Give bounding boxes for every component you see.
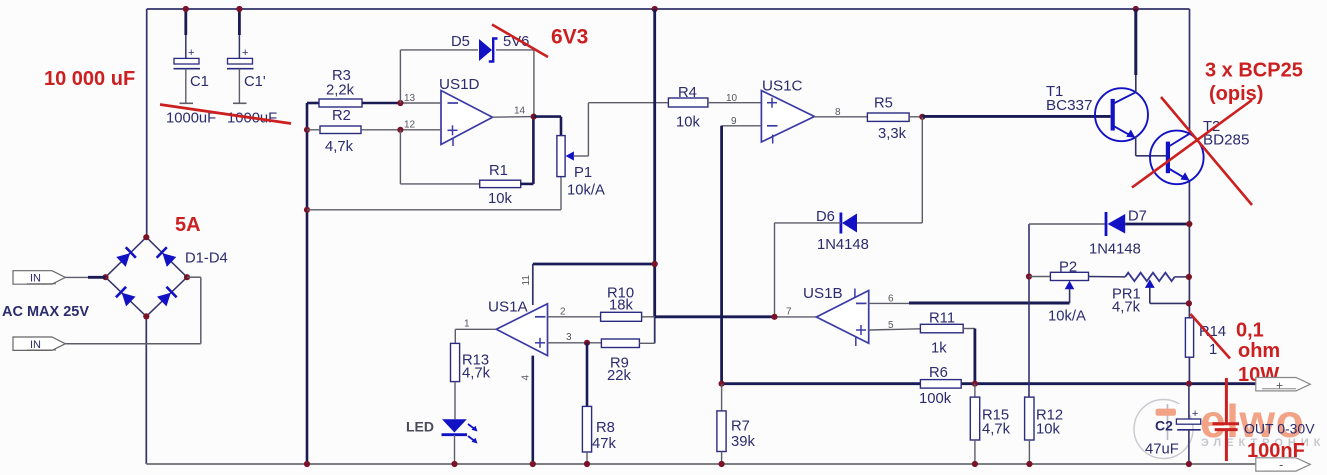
label LED <box>406 419 434 435</box>
label C1 <box>190 74 209 90</box>
label R8 <box>596 420 615 436</box>
svg-text:IN: IN <box>30 273 41 285</box>
label R3 value 2,2k <box>326 83 355 99</box>
svg-text:AC MAX 25V: AC MAX 25V <box>2 304 89 320</box>
wire R3 left stub <box>307 102 319 105</box>
red annotation (opis) <box>1209 83 1263 105</box>
wire R3 to pin13 <box>362 102 400 105</box>
pin number 2 <box>560 307 566 318</box>
svg-text:3,3k: 3,3k <box>878 126 907 142</box>
svg-text:4,7k: 4,7k <box>982 422 1011 438</box>
wire left column <box>306 103 309 464</box>
svg-text:10k: 10k <box>676 115 700 131</box>
label P2 <box>1059 260 1077 276</box>
resistor R13 <box>451 343 460 381</box>
svg-text:6: 6 <box>888 294 894 305</box>
label R10 value 18k <box>609 298 633 314</box>
label R5 value 3,3k <box>878 126 907 142</box>
wire D5 feedback loop <box>400 50 534 117</box>
svg-text:US1D: US1D <box>439 76 480 93</box>
zener diode D5 <box>479 39 498 62</box>
wire P2 to PR1 <box>1089 276 1126 278</box>
wire IN upper to bridge <box>65 276 105 278</box>
wire right frame to T2 collector <box>1189 9 1191 134</box>
svg-text:1k: 1k <box>931 341 947 357</box>
svg-text:7: 7 <box>786 307 792 318</box>
red annotation 5A <box>175 214 201 236</box>
junction left column ground <box>304 461 310 467</box>
svg-text:R5: R5 <box>874 96 893 112</box>
junction D7 frame <box>1186 221 1192 227</box>
wire T1 emitter to T2 base <box>1136 137 1167 156</box>
wire IN lower to bridge right vertex <box>65 277 201 344</box>
junction PR1 right frame <box>1186 274 1192 280</box>
junction bridge top vertex <box>143 234 149 240</box>
wire left frame lower <box>145 316 147 464</box>
svg-text:+: + <box>1192 408 1198 420</box>
label US1A <box>488 299 529 316</box>
red annotation ohm <box>1238 340 1280 362</box>
wire R2 to pin12 <box>361 129 400 131</box>
wire pin9 <box>722 125 762 127</box>
svg-text:10k/A: 10k/A <box>567 183 605 199</box>
label T2 type BD285 <box>1203 132 1249 149</box>
red strike through 1000uF labels <box>160 105 291 124</box>
svg-text:LED: LED <box>406 419 434 435</box>
junction bridge right vertex <box>184 274 190 280</box>
capacitor C1 <box>174 9 201 103</box>
svg-text:C1': C1' <box>244 74 266 90</box>
wire pin11 feed <box>533 264 655 305</box>
wire bottom ground rail <box>146 463 1256 465</box>
connector IN upper <box>13 271 65 285</box>
red cross over T2 line 2 <box>1132 100 1252 188</box>
svg-text:US1B: US1B <box>803 285 843 302</box>
junction R15 ground <box>972 461 978 467</box>
resistor R8 <box>582 406 591 452</box>
transistor T2 <box>1150 131 1204 185</box>
pin number 7 <box>786 307 792 318</box>
svg-text:9: 9 <box>731 116 737 127</box>
svg-text:(opis): (opis) <box>1209 83 1263 105</box>
wire R10 right <box>642 316 655 318</box>
svg-text:ohm: ohm <box>1238 340 1280 362</box>
pin number 4 <box>521 375 532 381</box>
label T1 type BC337 <box>1046 97 1092 114</box>
label C1' value 1000uF <box>227 111 277 127</box>
pin number 3 <box>566 332 572 343</box>
wire top rail <box>147 8 1190 10</box>
svg-text:14: 14 <box>514 106 526 117</box>
red capacitor annotation <box>1213 378 1240 461</box>
junction C2 ground <box>1186 461 1192 467</box>
wire pin13 <box>400 102 441 104</box>
wire R9 right <box>639 342 654 344</box>
junction P1 bottom row <box>304 207 310 213</box>
wire US1C output <box>814 116 867 118</box>
wire pin5 <box>869 329 921 330</box>
wire pin14 to P1 top <box>534 117 561 136</box>
wire D7 right <box>1125 223 1189 226</box>
diode D1 (bridge top-left) <box>116 247 136 267</box>
label D6 <box>816 209 835 225</box>
diode D7 <box>1106 212 1125 236</box>
svg-text:US1C: US1C <box>762 78 803 95</box>
label US1C <box>762 78 803 95</box>
LED <box>442 419 478 464</box>
resistor R1 <box>480 180 521 187</box>
label PR1 value 4,7k <box>1112 300 1141 316</box>
resistor R9 <box>601 339 639 348</box>
label P1 <box>574 165 592 181</box>
label P1 value 10k/A <box>567 183 605 199</box>
pin number 14 <box>514 106 526 117</box>
red strike through R14 <box>1191 314 1231 359</box>
wire P1 bottom to left column <box>307 177 561 210</box>
label D7 value 1N4148 <box>1089 242 1141 258</box>
label R1 <box>489 163 508 179</box>
svg-text:R8: R8 <box>596 420 615 436</box>
svg-text:8: 8 <box>835 107 841 118</box>
svg-text:OUT 0-30V: OUT 0-30V <box>1244 421 1315 437</box>
label US1D <box>439 76 480 93</box>
svg-text:R7: R7 <box>731 419 750 435</box>
resistor R4 <box>668 98 708 107</box>
svg-text:IN: IN <box>30 339 41 351</box>
svg-text:D5: D5 <box>451 34 470 50</box>
junction LED ground <box>451 461 457 467</box>
wire pin3 row <box>548 342 602 344</box>
svg-text:4: 4 <box>521 375 532 381</box>
label R8 value 47k <box>592 436 616 452</box>
capacitor C2 <box>1176 384 1200 464</box>
svg-text:3 x BCP25: 3 x BCP25 <box>1205 60 1303 82</box>
wire T1 collector <box>1134 9 1137 92</box>
svg-text:12: 12 <box>404 120 416 131</box>
junction bridge bottom vertex <box>143 313 149 319</box>
svg-text:0,1: 0,1 <box>1236 320 1264 342</box>
svg-text:R11: R11 <box>929 311 955 327</box>
pin number 10 <box>726 93 738 104</box>
resistor R2 <box>320 126 361 134</box>
resistor R6 <box>920 380 961 389</box>
wire left frame upper <box>146 9 148 237</box>
junction top rail C1 <box>183 6 189 12</box>
pin number 12 <box>404 120 416 131</box>
wire pin9 column down <box>720 126 723 384</box>
red annotation 3 x BCP25 <box>1205 60 1303 82</box>
wire D7 P2 column <box>1028 224 1030 397</box>
label R13 <box>462 353 489 369</box>
svg-text:10 000 uF: 10 000 uF <box>44 68 135 90</box>
diode D6 <box>841 213 857 234</box>
junction node7 <box>771 314 777 320</box>
wire output sense rail <box>722 382 1256 385</box>
wire US1A output pin1 <box>455 329 496 343</box>
svg-text:5A: 5A <box>175 214 201 236</box>
svg-text:1: 1 <box>464 319 470 330</box>
wire D6 to node7 <box>775 223 841 317</box>
wire US1D output <box>493 116 534 119</box>
label C1' <box>244 74 266 90</box>
red annotation 6V3 <box>551 26 588 49</box>
svg-text:P2: P2 <box>1059 260 1077 276</box>
svg-text:4,7k: 4,7k <box>1112 300 1141 316</box>
pin number 13 <box>404 93 416 104</box>
resistor R7 <box>717 411 726 452</box>
wire R1 right to pin14 <box>521 117 534 184</box>
diode D3 (bridge bottom-left) <box>116 287 136 307</box>
svg-text:R2: R2 <box>332 108 351 124</box>
label D1-D4 <box>185 251 228 267</box>
junction PR1 wiper frame <box>1186 300 1192 306</box>
wire T2 emitter to D7 node <box>1188 181 1190 318</box>
label T2 <box>1203 119 1220 135</box>
svg-text:US1A: US1A <box>488 299 529 316</box>
wire R5 to node <box>909 116 922 118</box>
op-amp US1C <box>761 91 814 144</box>
label R6 value 100k <box>919 391 952 407</box>
svg-text:3: 3 <box>566 332 572 343</box>
label R7 <box>731 419 750 435</box>
wire R2 left <box>307 129 320 131</box>
wire D7 left <box>1029 223 1105 225</box>
svg-text:10: 10 <box>726 93 738 104</box>
label R9 <box>610 356 629 372</box>
wire P2 left <box>1029 276 1050 278</box>
wire PR1 right <box>1174 276 1189 278</box>
junction plus rail R14 <box>1186 381 1192 387</box>
label R12 value 10k <box>1036 422 1060 438</box>
label R15 <box>982 408 1009 424</box>
svg-text:+: + <box>1276 379 1283 393</box>
red cross over T2 line 1 <box>1161 97 1252 205</box>
trimmer PR1 <box>1125 273 1189 304</box>
transistor T1 <box>1095 88 1148 141</box>
junction pin14 <box>531 114 537 120</box>
label P2 value 10k/A <box>1048 309 1086 325</box>
label OUT 0-30V <box>1244 421 1315 437</box>
svg-text:5: 5 <box>888 320 894 331</box>
resistor R11 <box>920 324 963 333</box>
wire pin12 <box>400 129 441 131</box>
junction pin13 <box>397 100 403 106</box>
wire R5 node to T1 base <box>922 115 1110 118</box>
junction bridge left vertex <box>102 274 108 280</box>
connector IN lower <box>13 337 65 351</box>
svg-text:100k: 100k <box>919 391 952 407</box>
svg-text:P1: P1 <box>574 165 592 181</box>
wire R12 ground <box>1028 440 1030 464</box>
label R1 value 10k <box>488 191 512 207</box>
svg-text:11: 11 <box>521 275 532 286</box>
op-amp US1D <box>441 91 493 147</box>
junction R2 left <box>304 127 310 133</box>
svg-text:R1: R1 <box>489 163 508 179</box>
svg-text:47uF: 47uF <box>1145 442 1179 458</box>
svg-text:47k: 47k <box>592 436 616 452</box>
svg-text:D7: D7 <box>1128 209 1147 225</box>
label R4 <box>678 85 697 101</box>
junction R5 output node <box>919 114 925 120</box>
svg-text:10k: 10k <box>488 191 512 207</box>
label C2 value 47uF <box>1145 442 1179 458</box>
svg-text:C1: C1 <box>190 74 209 90</box>
svg-text:10k: 10k <box>1036 422 1060 438</box>
label D5 <box>451 34 470 50</box>
potentiometer P1 <box>557 136 589 177</box>
junction R12 ground <box>1026 461 1032 467</box>
label R15 value 4,7k <box>982 422 1011 438</box>
wire R7 ground <box>721 452 723 465</box>
op-amp US1A <box>496 304 547 356</box>
junction top rail supply column <box>652 6 658 12</box>
wire node7 row <box>655 315 817 318</box>
wire supply column <box>653 9 656 343</box>
connector OUT plus <box>1256 378 1311 393</box>
wire pin4 <box>531 356 534 464</box>
watermark elwo logo <box>1134 395 1325 459</box>
resistor R5 <box>867 113 909 121</box>
label D7 <box>1128 209 1147 225</box>
svg-text:+: + <box>188 47 194 59</box>
red annotation 100nF <box>1247 440 1305 462</box>
svg-text:10k/A: 10k/A <box>1048 309 1086 325</box>
potentiometer P2 <box>1050 272 1088 303</box>
label T1 <box>1046 84 1063 100</box>
svg-text:D1-D4: D1-D4 <box>185 251 228 267</box>
red annotation 0,1 <box>1236 320 1264 342</box>
wire R15 ground <box>974 440 976 464</box>
label R2 value 4,7k <box>325 139 354 155</box>
wire R8 to ground <box>586 452 588 464</box>
label R5 <box>874 96 893 112</box>
capacitor C1' <box>227 9 254 103</box>
svg-text:1N4148: 1N4148 <box>1089 242 1141 258</box>
svg-text:R6: R6 <box>929 365 948 381</box>
wire R4 to pin10 <box>708 102 762 104</box>
junction pin12 <box>397 127 403 133</box>
wire R5 node down to D6 <box>856 117 922 223</box>
wire R11 right down <box>963 329 975 384</box>
junction P2 left <box>1026 273 1032 279</box>
svg-text:4,7k: 4,7k <box>462 366 491 382</box>
junction R7 ground <box>719 461 725 467</box>
pin number 8 <box>835 107 841 118</box>
svg-text:13: 13 <box>404 93 416 104</box>
label AC MAX 25V <box>2 304 89 320</box>
junction pin3 node <box>584 340 590 346</box>
junction top rail T1 collector <box>1133 6 1139 12</box>
junction sense rail left <box>719 381 725 387</box>
junction top rail C1' <box>236 6 242 12</box>
wire pin6 <box>869 302 1070 304</box>
red annotation 10W <box>1238 364 1279 386</box>
pin number 9 <box>731 116 737 127</box>
pin number 1 <box>464 319 470 330</box>
resistor R12 <box>1025 397 1034 440</box>
svg-text:2: 2 <box>560 307 566 318</box>
bridge rectifier D1-D4 outline <box>106 237 188 316</box>
resistor R14 <box>1185 318 1193 357</box>
svg-text:BC337: BC337 <box>1046 97 1092 114</box>
wire pin2 row <box>548 316 601 318</box>
svg-text:BD285: BD285 <box>1203 132 1249 149</box>
svg-text:39k: 39k <box>731 434 755 450</box>
pin number 6 <box>888 294 894 305</box>
label D5 value 5V6 <box>503 34 529 50</box>
op-amp US1B <box>816 289 868 347</box>
resistor R10 <box>601 312 642 321</box>
label R7 value 39k <box>731 434 755 450</box>
label US1B <box>803 285 843 302</box>
svg-text:+: + <box>242 47 248 59</box>
label R14 value 1 <box>1209 342 1217 358</box>
wire R13 to LED <box>454 382 456 420</box>
svg-text:R4: R4 <box>678 85 697 101</box>
resistor R15 <box>970 397 979 440</box>
label R3 <box>332 68 351 84</box>
wire P1 wiper to R4 <box>588 103 668 156</box>
label PR1 <box>1112 287 1141 303</box>
svg-text:4,7k: 4,7k <box>325 139 354 155</box>
diode D2 (bridge top-right) <box>157 247 177 267</box>
junction R8 ground <box>584 461 590 467</box>
junction R6 right node <box>972 381 978 387</box>
resistor R3 <box>319 99 362 107</box>
svg-text:22k: 22k <box>607 368 631 384</box>
label C1 value 1000uF <box>166 111 216 127</box>
label R4 value 10k <box>676 115 700 131</box>
wire sense rail to R7 <box>721 384 723 411</box>
wire pin3 down to R8 <box>586 343 589 407</box>
wire R1 feedback left <box>400 130 479 184</box>
svg-text:5V6: 5V6 <box>503 34 529 50</box>
svg-text:-: - <box>1279 457 1283 472</box>
red strike through 5V6 <box>492 25 548 58</box>
label R11 value 1k <box>931 341 947 357</box>
label C2 <box>1155 418 1173 434</box>
connector OUT minus <box>1256 457 1311 472</box>
svg-text:2,2k: 2,2k <box>326 83 355 99</box>
wire node to R15 <box>974 384 976 397</box>
label R11 <box>929 311 955 327</box>
svg-text:C2: C2 <box>1155 418 1173 434</box>
label D6 value 1N4148 <box>817 237 869 253</box>
wire R14 to plus rail <box>1188 357 1190 384</box>
svg-text:1N4148: 1N4148 <box>817 237 869 253</box>
diode D4 (bridge bottom-right) <box>157 287 177 307</box>
junction pin4 ground <box>530 461 536 467</box>
red annotation 10 000 uF <box>44 68 135 90</box>
pin number 5 <box>888 320 894 331</box>
svg-text:18k: 18k <box>609 298 633 314</box>
label R10 <box>607 286 634 302</box>
label R13 value 4,7k <box>462 366 491 382</box>
svg-text:6V3: 6V3 <box>551 26 588 49</box>
label R9 value 22k <box>607 368 631 384</box>
label R2 <box>332 108 351 124</box>
pin number 11 <box>521 275 532 286</box>
label R6 <box>929 365 948 381</box>
label R12 <box>1036 408 1063 424</box>
label R14 <box>1199 324 1226 340</box>
junction pin11 node <box>652 261 658 267</box>
